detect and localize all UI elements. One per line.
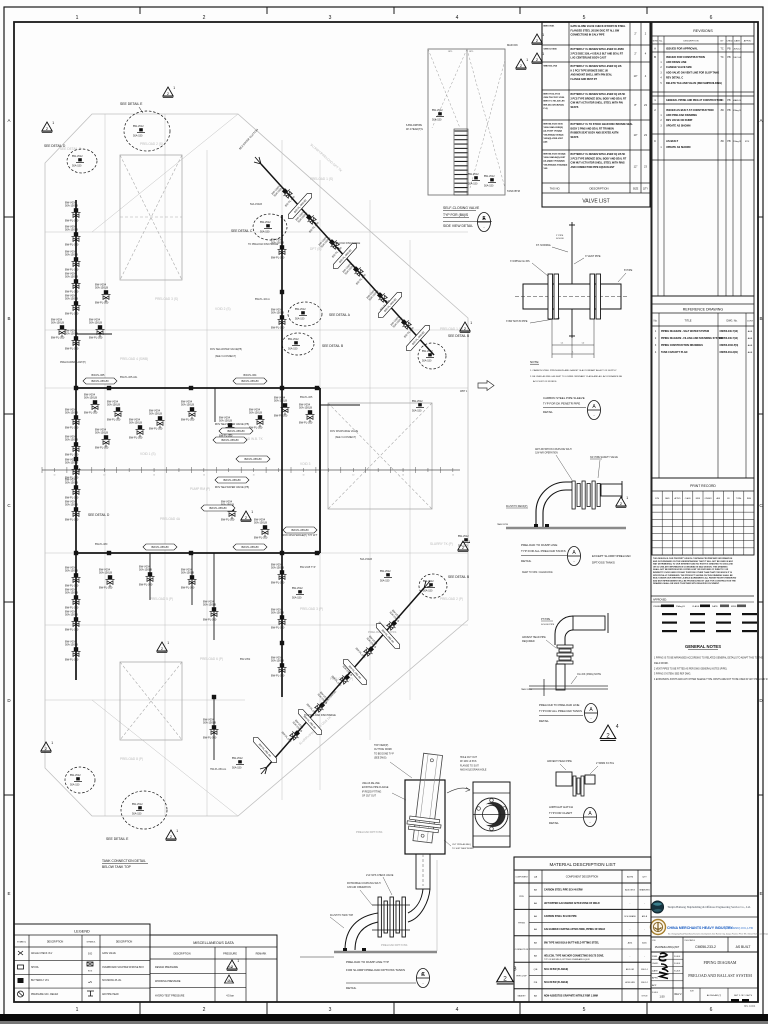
diagonal suction pipe upper [261,164,434,355]
svg-text:DESCRIPTION: DESCRIPTION [116,941,133,944]
revision triangles in plan [42,121,54,132]
svg-text:A&B: A&B [748,351,753,354]
svg-text:PRELOAD 3 (S): PRELOAD 3 (S) [155,297,178,301]
svg-text:3 PIPING SYSTEM: SEE REF DWG.: 3 PIPING SYSTEM: SEE REF DWG. [654,674,691,676]
svg-text:SOUNDING PLUG: SOUNDING PLUG [102,980,121,982]
svg-text:SEE DETAIL B: SEE DETAIL B [448,575,469,579]
svg-text:SEE DETAIL E: SEE DETAIL E [106,837,129,841]
svg-text:ROX: ROX [88,971,93,973]
svg-text:TANK CAPACITY PLAN: TANK CAPACITY PLAN [661,351,688,354]
svg-text:5: 5 [583,15,586,21]
svg-text:GENERAL PIPING AND DWG AT CONS: GENERAL PIPING AND DWG AT CONSTRUCTION [666,99,722,102]
main pipe horizontal upper [76,387,320,389]
svg-text:APPD: APPD [652,977,658,980]
rev triangles in misc data [227,959,239,970]
svg-text:CM056-246-7(13): CM056-246-7(13) [720,330,739,333]
svg-text:CM056-2010-P(3): CM056-2010-P(3) [720,345,739,347]
svg-text:CARBON STEEL PIPE SCH 40 ERW: CARBON STEEL PIPE SCH 40 ERW [544,889,583,892]
svg-text:PIPING: PIPING [518,923,525,925]
svg-text:DPT (S): DPT (S) [310,247,321,251]
svg-text:TYP FOR CHART: TYP FOR CHART [549,811,572,815]
svg-text:AIR PIPE HEAD: AIR PIPE HEAD [102,993,119,996]
svg-text:25A/05E6A-8PA(L)/WT: 25A/05E6A-8PA(L)/WT [655,946,680,949]
svg-text:(SEE V-CONNECT): (SEE V-CONNECT) [335,436,356,439]
svg-text:4 EXPANSION JOINTS AND ANY OT: 4 EXPANSION JOINTS AND ANY OTHER SLEEVE … [654,678,768,681]
see detail C ellipse on diagonal [253,214,287,240]
svg-text:AIRTIGHT HATCH: AIRTIGHT HATCH [549,805,573,809]
svg-text:GATE GLOBE VALVE CHECK W BODY: GATE GLOBE VALVE CHECK W BODY IN STEEL [571,25,626,28]
svg-text:SCH 80 BW (FLANGE): SCH 80 BW (FLANGE) [544,981,568,984]
svg-text:REQUIRED: REQUIRED [522,640,535,643]
svg-text:UPDATE AS SHOWN: UPDATE AS SHOWN [666,124,691,127]
svg-text:1 PIPING IS TO BE ARRANGED AC: 1 PIPING IS TO BE ARRANGED ACCORDING TO … [654,657,763,660]
svg-text:DATE: DATE [665,497,670,500]
title block grid [682,937,684,1002]
svg-text:TC: TC [720,48,723,51]
svg-text:CONNECTION: CONNECTION [515,949,529,951]
svg-text:PB: PB [727,56,731,59]
svg-text:ISSUED FOR APPROVAL: ISSUED FOR APPROVAL [666,47,698,51]
svg-text:PUMP RM (P): PUMP RM (P) [190,487,210,491]
svg-text:PRINT RECORD: PRINT RECORD [690,484,716,488]
svg-text:B16.5-2: B16.5-2 [641,982,648,984]
svg-text:BW-PL-065: BW-PL-065 [300,396,313,399]
svg-text:PIPING DIAGRAM - FILLING AND S: PIPING DIAGRAM - FILLING AND SOUNDING SY… [661,337,722,340]
centerline ruler [42,469,460,471]
svg-text:No.1 Gangxing Road Haixin Area: No.1 Gangxing Road Haixin Area Economic … [668,933,768,936]
svg-text:TYP FOR DK PENETR PIPE: TYP FOR DK PENETR PIPE [543,402,580,406]
svg-text:ROV DISCHARGE(P) TYP W.T: ROV DISCHARGE(P) TYP W.T [283,534,318,537]
valve clusters near lower main [139,565,155,587]
svg-text:2: 2 [228,979,230,983]
svg-text:S-D: S-D [88,953,93,956]
svg-text:TC: TC [720,99,723,102]
svg-text:ROTATABLE COUPLING W/LH: ROTATABLE COUPLING W/LH [347,882,381,885]
svg-text:CM056-233-2: CM056-233-2 [695,945,716,949]
svg-text:CARBON STEEL SCH 80 PIPE: CARBON STEEL SCH 80 PIPE [544,915,577,918]
svg-text:DETAIL: DETAIL [543,410,553,414]
svg-text:APP: APP [652,984,657,987]
svg-text:TITLE: TITLE [684,319,691,323]
svg-text:SYM: SYM [653,41,658,43]
svg-text:HYDRO-TEST PRESSURE: HYDRO-TEST PRESSURE [155,995,185,998]
svg-text:GASKET: GASKET [517,994,526,997]
horizontal pipe piece [601,484,622,496]
svg-text:C: C [421,972,425,978]
svg-text:COMPONENT: COMPONENT [515,877,528,879]
svg-text:CUT PIPE AS REQ: CUT PIPE AS REQ [452,843,471,846]
svg-text:PB: PB [727,48,731,51]
svg-text:DATE: DATE [712,605,718,608]
svg-text:HOLE CUT OUT: HOLE CUT OUT [460,757,478,759]
svg-text:FOR SLURRY/PRELOAD DPT/OSS TAN: FOR SLURRY/PRELOAD DPT/OSS TANKS [346,968,405,972]
svg-text:DWG. No.: DWG. No. [727,320,738,323]
deck penetration flange detail [571,222,573,284]
deck internal partition lines [45,231,468,233]
svg-text:BODY 2 PINS AND SEAL RT TRUNIO: BODY 2 PINS AND SEAL RT TRUNION [571,127,615,130]
svg-text:KT. NORMAL: KT. NORMAL [536,244,552,247]
svg-text:CHANGE VALVE SIZE: CHANGE VALVE SIZE [666,66,692,69]
svg-text:ADD PRELOAD DRAWING: ADD PRELOAD DRAWING [666,114,697,117]
svg-text:Tianjin Haiheng Shipbuilding &: Tianjin Haiheng Shipbuilding & Offshore … [667,905,751,909]
svg-text:10: 10 [352,475,354,477]
svg-text:50A-150LB: 50A-150LB [360,558,372,561]
svg-text:A: A [759,118,762,123]
elbow curve [536,482,572,527]
see detail B ellipse [282,333,314,355]
svg-text:OVERBOARD SCUPPER W/ROSE BOX: OVERBOARD SCUPPER W/ROSE BOX [102,966,144,969]
svg-text:STYLE: STYLE [642,995,649,997]
svg-text:2": 2" [634,52,636,56]
svg-text:(SEE V-CONNECT): (SEE V-CONNECT) [215,355,236,358]
svg-text:10": 10" [634,133,638,137]
svg-text:NON-ASBESTOS GRAPHITE NITRILE: NON-ASBESTOS GRAPHITE NITRILE RBR 1.5MM [544,994,598,997]
svg-text:PRELOAD 4A: PRELOAD 4A [160,517,181,521]
svg-text:BW-PL-065: BW-PL-065 [92,374,105,377]
svg-text:VOID 2 (S): VOID 2 (S) [215,307,231,311]
svg-text:SYMBOL: SYMBOL [86,942,96,944]
triangle near elbow [616,496,628,507]
center riser pipe [281,215,283,697]
svg-text:TANK BTM: TANK BTM [497,523,508,526]
svg-text:A105: A105 [642,941,646,944]
svg-text:CM056-234-2(31): CM056-234-2(31) [720,351,739,354]
miscellaneous data table [150,935,277,1002]
double triangle bottom right of pump [497,967,517,984]
svg-text:REVISIONS: REVISIONS [693,29,713,33]
svg-text:QA: QA [534,876,538,879]
svg-text:4: 4 [616,724,619,730]
svg-text:CUTTING WORK: CUTTING WORK [374,749,392,751]
svg-text:DESCRIPTION: DESCRIPTION [47,941,64,944]
svg-text:FLANGED STEEL JIS10K DISC RT A: FLANGED STEEL JIS10K DISC RT ALL BW [571,29,620,32]
svg-text:AIRVENT HEAD PIPE: AIRVENT HEAD PIPE [522,636,546,639]
svg-text:TYP FOR (B6)/S: TYP FOR (B6)/S [443,213,469,217]
svg-text:ISSUED FOR CONSTRUCTION: ISSUED FOR CONSTRUCTION [666,55,705,59]
caisson tilted pipe [405,752,449,843]
signatures [659,953,667,961]
svg-text:A105 GR: A105 GR [626,968,635,971]
svg-text:V04-B03(2)5-V03(2)5(2): V04-B03(2)5-V03(2)5(2) [544,163,568,166]
svg-text:6-BW AIRPIPE: 6-BW AIRPIPE [406,124,422,127]
svg-text:2: 2 [503,976,507,983]
svg-text:ROV DISCHARGE VALVE: ROV DISCHARGE VALVE [330,430,358,433]
svg-text:PRELOAD 3 (P): PRELOAD 3 (P) [300,607,323,611]
see detail ellipse lower diagonal [419,574,447,598]
svg-text:(2)-(2)(2)3 V03(2)4(2): (2)-(2)(2)3 V03(2)4(2) [544,160,565,163]
svg-text:2 PCS DISC 316L+4 SEALS BLT AN: 2 PCS DISC 316L+4 SEALS BLT AND SEAL RT [571,52,624,55]
svg-text:FIELD WORK.: FIELD WORK. [654,663,669,665]
svg-text:SHALL NOT BE REPRODUCED COPIED: SHALL NOT BE REPRODUCED COPIED LENT OR D… [653,568,729,571]
svg-text:PIPING CONSTRUCTION DRAWINGS: PIPING CONSTRUCTION DRAWINGS [661,344,703,347]
air pipe elbow detail [573,616,605,630]
svg-text:50A-150LB: 50A-150LB [250,203,262,206]
svg-text:OWNER: OWNER [705,498,713,500]
svg-text:E: E [7,891,10,896]
svg-text:10: 10 [103,475,105,477]
svg-text:BUTTERFLY VL DESIGN WITH LEVER: BUTTERFLY VL DESIGN WITH LEVER 4Q JIS [571,65,622,68]
svg-text:B: B [759,316,762,321]
svg-text:SCALE: SCALE [674,955,681,958]
svg-text:BUTTERFLY VL DESIGN WITH LEVER: BUTTERFLY VL DESIGN WITH LEVER 40 JIS5K [571,48,625,51]
svg-text:TO PRELOAD DISCHARGE: TO PRELOAD DISCHARGE [330,242,361,245]
svg-text:BUTTERFLY VL DESIGN WITH LEVER: BUTTERFLY VL DESIGN WITH LEVER 4Q JIS 5K [571,93,626,96]
svg-text:PRELOAD AND BALLAST SYSTEM: PRELOAD AND BALLAST SYSTEM [688,973,752,978]
svg-text:WBV313-V04: WBV313-V04 [544,65,558,68]
svg-text:4: 4 [456,15,459,21]
svg-text:CLASS: CLASS [685,497,692,500]
svg-text:TANK BTM: TANK BTM [521,688,532,691]
svg-text:2 VENT PIPES TO BE FITTED AS: 2 VENT PIPES TO BE FITTED AS PER DWG GEN… [654,667,728,670]
svg-text:SEATS: SEATS [571,136,579,139]
material description list [514,857,651,1002]
svg-text:ROV SEA WATER VALVE(P5): ROV SEA WATER VALVE(P5) [210,348,242,351]
right panel frame [650,22,652,1002]
pipe line label flags [83,378,117,384]
svg-text:BUTTERFLY VL DESIGN WITH LEVER: BUTTERFLY VL DESIGN WITH LEVER 4Q JIS 5K [571,153,626,156]
svg-text:C: C [654,139,656,143]
svg-text:LUG CENTERLINE BODY CAST: LUG CENTERLINE BODY CAST [571,57,607,60]
svg-text:2. BE USED AS WELL AS SHIP TO: 2. BE USED AS WELL AS SHIP TO LOWER ORDI… [530,375,623,378]
svg-text:SEE DETAIL C: SEE DETAIL C [231,229,253,233]
pump room riser right [319,388,321,553]
flow arrow hollow [478,381,494,391]
svg-text:PIPING DIAGRAM: PIPING DIAGRAM [703,960,736,965]
svg-text:REV DETAIL C: REV DETAIL C [666,77,683,80]
svg-text:RUBBER SEAT BODY AND SEATED AS: RUBBER SEAT BODY AND SEATED ASTM [571,132,619,135]
svg-text:3' VENT PIPE: 3' VENT PIPE [585,255,601,258]
svg-text:1: 1 [76,1007,79,1013]
svg-text:VALVE LIST: VALVE LIST [582,199,609,205]
diagonal discharge pipe lower [267,588,424,767]
svg-text:VOID 1 (S): VOID 1 (S) [140,452,156,456]
svg-text:SEE DETAIL E: SEE DETAIL E [120,102,143,106]
svg-text:PRELOAD DPT/OSS: PRELOAD DPT/OSS [381,943,408,947]
svg-text:3: 3 [329,1007,332,1013]
svg-text:PB: PB [727,109,731,112]
valve clusters on left riser [65,201,81,223]
dimension lines [551,319,553,358]
svg-text:10: 10 [253,475,255,477]
svg-text:DRAWING SHALL BE USED TOGETHER: DRAWING SHALL BE USED TOGETHER WITH RELA… [653,582,720,585]
svg-text:PRELOAD DPT/OSS: PRELOAD DPT/OSS [356,830,383,834]
svg-text:10: 10 [302,475,304,477]
title block [651,896,758,1002]
see detail D ellipse left [67,149,97,173]
svg-text:SEE DETAIL B: SEE DETAIL B [322,344,343,348]
print record table [652,478,754,555]
svg-text:AS BUILT: AS BUILT [666,139,679,143]
svg-text:3: 3 [513,967,516,973]
see detail D ellipse bottom [65,767,95,793]
svg-text:TYP FOR ALL PRELOAD TANKS: TYP FOR ALL PRELOAD TANKS [539,709,582,713]
svg-text:C/W NUT ACTUATOR SHELL STEEL W: C/W NUT ACTUATOR SHELL STEEL WITH PIN [571,102,623,105]
svg-text:ACCOUNT OF WORKS.: ACCOUNT OF WORKS. [533,380,557,383]
svg-text:2 PCS TYPE BRONZE SEAL BODY AN: 2 PCS TYPE BRONZE SEAL BODY AND SEAL RT [571,157,627,160]
svg-text:SCH 40 BW (FLANGE): SCH 40 BW (FLANGE) [544,968,568,971]
svg-text:PRELOAD/BALLAST(P): PRELOAD/BALLAST(P) [60,361,86,364]
svg-text:2' 50MM X3.7KG: 2' 50MM X3.7KG [596,762,614,765]
flange stack [572,481,575,509]
svg-text:THIS DESIGN IS OUR PROPERTY WH: THIS DESIGN IS OUR PROPERTY WHICH CONTAI… [653,557,733,560]
svg-text:2'x4' NPS CHECK VALVE: 2'x4' NPS CHECK VALVE [366,874,394,877]
svg-text:DWN: DWN [652,956,658,958]
svg-text:BUTTERFLY VL TO STOCK GEAR DIS: BUTTERFLY VL TO STOCK GEAR DISC BRONZE S… [571,123,634,126]
svg-text:PRESSURE: PRESSURE [223,953,237,956]
svg-text:AND HOLE DRAIN HOLE: AND HOLE DRAIN HOLE [460,769,487,772]
svg-text:No.: No. [659,41,663,43]
svg-text:1:50: 1:50 [659,995,665,999]
svg-text:BW TYPE ANSI B16.9 BUTT WELD F: BW TYPE ANSI B16.9 BUTT WELD FITTING STE… [544,941,600,944]
svg-text:SEE DETAIL B: SEE DETAIL B [448,334,469,338]
svg-text:TAG NO.: TAG NO. [550,187,561,191]
caisson tank wall line [436,860,438,951]
svg-text:C/W AIR OPERATION: C/W AIR OPERATION [347,886,371,889]
svg-text:4.5 bar: 4.5 bar [226,995,234,998]
svg-text:PB: PB [727,140,731,143]
svg-text:REFERENCE DRAWING: REFERENCE DRAWING [683,308,724,312]
svg-text:2": 2" [634,32,636,36]
svg-text:PRELOAD 5 (P): PRELOAD 5 (P) [150,597,173,601]
svg-text:12": 12" [634,165,638,169]
svg-text:6: 6 [710,1007,713,1013]
valve clusters on center riser [271,238,287,260]
reference drawing table [652,296,754,478]
svg-text:VOID 3: VOID 3 [300,462,311,466]
svg-text:HOT DIPPED GALVANIZED AFTER ZO: HOT DIPPED GALVANIZED AFTER ZONE OF WELD [544,902,600,905]
svg-text:BWV45-V023-V035: BWV45-V023-V035 [544,123,564,126]
svg-text:3/4' PIPE SAFETY VALVE: 3/4' PIPE SAFETY VALVE [590,456,618,459]
svg-text:OR SO USE ANY INFORMATION CONT: OR SO USE ANY INFORMATION CONTAINED IN S… [653,565,728,568]
svg-text:SEE DETAIL D: SEE DETAIL D [44,144,66,148]
svg-text:BWV45-V023-V034(2): BWV45-V023-V034(2) [544,153,566,156]
svg-text:KEEP TO MINI. CLEARANCE: KEEP TO MINI. CLEARANCE [522,571,553,574]
self-closing valve side view detail [428,49,505,195]
caisson detail box [405,780,445,854]
svg-text:TANK BTM: TANK BTM [507,189,520,193]
deck line [506,527,626,530]
svg-text:1. CARBON STEEL PIPE/SLEEVE AN: 1. CARBON STEEL PIPE/SLEEVE AND GASKET I… [530,369,617,372]
svg-text:A&B: A&B [748,330,753,333]
svg-text:A: A [654,47,656,51]
left riser pipe [75,200,77,680]
svg-text:FLUSH TO TANK TOP: FLUSH TO TANK TOP [330,914,354,917]
see detail E ellipse top [124,111,170,151]
svg-text:TO PRELOAD DISCHARGE: TO PRELOAD DISCHARGE [248,243,279,246]
caisson flange face detail [473,782,510,847]
svg-text:PRELOAD 6 (P): PRELOAD 6 (P) [200,657,223,661]
flange pair left [548,274,553,319]
svg-text:FLANGE TO SUIT: FLANGE TO SUIT [460,764,479,767]
svg-text:MISCELLANEOUS DATA: MISCELLANEOUS DATA [193,941,234,945]
svg-text:QTY: QTY [643,188,648,191]
svg-text:TO BE DONE TY-P: TO BE DONE TY-P [374,753,394,755]
svg-text:V036-V045-B(2)-V057: V036-V045-B(2)-V057 [544,156,567,159]
svg-text:ISS. 10/04: ISS. 10/04 [744,1005,756,1008]
svg-text:3: 3 [329,15,332,21]
pipe junction boxes [107,386,111,390]
svg-text:TOP VIEW(P): TOP VIEW(P) [374,745,388,747]
svg-text:DELETE TAG AND VALVE (REF.SHIP: DELETE TAG AND VALVE (REF.SHIPBUILDING) [666,82,722,85]
svg-text:SCH 80 PIPE: SCH 80 PIPE [541,624,555,626]
svg-text:B: B [654,55,656,59]
svg-text:MAIN DK: MAIN DK [507,43,518,47]
svg-text:15Aug13: 15Aug13 [733,109,742,112]
svg-text:SCALE: SCALE [652,991,659,994]
svg-text:SHT 1 OF 1 SHTS: SHT 1 OF 1 SHTS [734,995,753,997]
svg-text:K 2 PCS TYPE BRONZE DISC 1/8: K 2 PCS TYPE BRONZE DISC 1/8 [571,69,609,72]
main pipe horizontal lower [76,552,320,554]
svg-text:PRELOAD TO DUMP LINE: PRELOAD TO DUMP LINE [521,543,557,547]
svg-text:ANTI-ROTATION COUPLING W/LH: ANTI-ROTATION COUPLING W/LH [535,448,572,451]
svg-text:10": 10" [634,74,638,78]
svg-text:A53-B: A53-B [642,915,648,918]
svg-text:A: A [7,118,10,123]
svg-text:3' NIPPLE No.15S: 3' NIPPLE No.15S [510,260,530,263]
svg-text:1: 1 [76,15,79,21]
svg-text:PB: PB [727,99,731,102]
svg-text:A106 GR.B: A106 GR.B [625,889,636,892]
svg-text:HELICOIL TYPE ANCHOR CONNECTIN: HELICOIL TYPE ANCHOR CONNECTING BOLTS ZO… [544,955,604,958]
svg-text:SCALE: SCALE [674,962,681,965]
svg-text:BW-V052: BW-V052 [240,658,251,661]
svg-text:CONT: CONT [747,321,754,323]
svg-text:10: 10 [402,475,404,477]
svg-text:●/S: ●/S [88,981,92,984]
svg-text:ADD VALVE ON VENT LINE FOR SLO: ADD VALVE ON VENT LINE FOR SLOP TANK [666,71,719,74]
caisson lower pipe [416,854,430,889]
svg-text:CHINA MERCHANTS HEAVY INDUSTRY: CHINA MERCHANTS HEAVY INDUSTRY [667,926,733,930]
flange pair right [590,274,595,319]
svg-text:A234 GRB: A234 GRB [625,981,635,984]
svg-text:TO PRELOAD DISCHARGE: TO PRELOAD DISCHARGE [304,714,336,717]
logo Tianjin Haiheng globe [651,901,663,913]
svg-text:PIPE: PIPE [519,896,524,898]
pump ground line [334,951,437,954]
svg-text:PIPING DIAGRAM - SALT WATER SY: PIPING DIAGRAM - SALT WATER SYSTEM [661,330,709,333]
svg-text:BW-PL-064: BW-PL-064 [244,374,257,377]
svg-text:PRELOAD 1 (S): PRELOAD 1 (S) [310,177,333,181]
svg-text:OF CUT OUT: OF CUT OUT [362,796,377,798]
svg-text:BW-PL-065-A0L: BW-PL-065-A0L [120,376,138,379]
svg-text:DESIGN PRESSURE: DESIGN PRESSURE [155,966,178,969]
svg-text:AS BUILT: AS BUILT [736,945,751,949]
stray clusters right side [412,400,424,413]
svg-text:BW-PL-080: BW-PL-080 [95,543,108,546]
svg-text:A&B: A&B [748,337,753,340]
svg-text:KTN: KTN [745,141,750,143]
svg-text:CM056-246-7(12): CM056-246-7(12) [720,337,739,340]
svg-text:CHKD: CHKD [726,41,733,43]
svg-text:SIDE VIEW DETAIL: SIDE VIEW DETAIL [443,224,473,228]
svg-text:Onn DK (DWG) NOTE: Onn DK (DWG) NOTE [577,673,601,676]
svg-text:PT PIPE: PT PIPE [541,618,551,621]
svg-text:25Aug13: 25Aug13 [676,605,686,608]
svg-text:TYP OF BW WELD, FITTINGS STAND: TYP OF BW WELD, FITTINGS STANDARD EQUIV [544,958,590,961]
svg-text:HW-PL-050-AL: HW-PL-050-AL [210,768,227,771]
svg-text:BUILT UNDER OUR WRITTEN LICENC: BUILT UNDER OUR WRITTEN LICENCE AGREEMEN… [653,577,737,580]
svg-text:CONNECTIONS IN GALV PIPE: CONNECTIONS IN GALV PIPE [571,34,605,37]
svg-text:DETAIL: DETAIL [521,559,532,563]
svg-text:DESCRIPTION: DESCRIPTION [684,41,699,43]
svg-text:TITLE: TITLE [690,940,696,942]
svg-text:DPT/OSS TANKS: DPT/OSS TANKS [592,561,615,565]
svg-text:ANGLE CHECK VLV: ANGLE CHECK VLV [31,952,53,955]
svg-text:JUN.12: JUN.12 [733,49,741,51]
svg-text:10: 10 [203,475,205,477]
pump loop flange stack [378,897,381,937]
triangle below air detail [600,724,619,740]
